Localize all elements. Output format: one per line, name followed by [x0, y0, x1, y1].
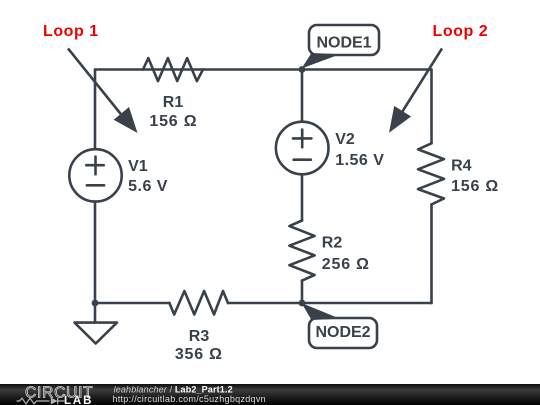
- svg-text:NODE2: NODE2: [315, 324, 370, 341]
- node junction dot NODE2: [299, 300, 306, 307]
- svg-text:356 Ω: 356 Ω: [175, 346, 223, 363]
- voltage source V1: [69, 149, 121, 201]
- loop 2 arrow: [389, 48, 442, 132]
- wire right vertical upper (corner to R4 top): [430, 70, 433, 144]
- svg-text:R2: R2: [322, 235, 343, 252]
- svg-text:256 Ω: 256 Ω: [322, 256, 370, 273]
- callout NODE1: [302, 25, 380, 69]
- callout NODE2: [302, 303, 378, 348]
- svg-text:5.6 V: 5.6 V: [128, 178, 168, 195]
- svg-text:R1: R1: [163, 94, 184, 111]
- resistor R2: [289, 221, 314, 281]
- svg-text:V2: V2: [335, 131, 355, 148]
- resistor R3: [169, 291, 228, 315]
- resistor R1: [143, 58, 203, 81]
- wire middle mid (V2 bottom to R2 top): [301, 174, 304, 220]
- svg-text:LAB: LAB: [64, 395, 93, 405]
- svg-text:R4: R4: [451, 157, 472, 174]
- loop 1 arrow: [68, 48, 138, 133]
- svg-text:1.56 V: 1.56 V: [335, 152, 384, 169]
- wire left vertical upper (corner to V1 top): [94, 70, 97, 150]
- svg-text:http://circuitlab.com/c5uzhgbq: http://circuitlab.com/c5uzhgbqzdqvn: [112, 394, 266, 404]
- wire left vertical lower (V1 bottom to ground node): [94, 202, 97, 323]
- wire middle upper (NODE1 to V2 top): [301, 70, 304, 122]
- svg-text:V1: V1: [128, 158, 148, 175]
- CircuitLab logo zigzag and diode: [17, 398, 65, 404]
- svg-text:156 Ω: 156 Ω: [451, 178, 499, 195]
- footer bar: [0, 384, 540, 405]
- svg-text:NODE1: NODE1: [316, 35, 371, 52]
- svg-text:156 Ω: 156 Ω: [149, 113, 197, 130]
- svg-text:Loop 2: Loop 2: [433, 23, 489, 40]
- wire right vertical lower (R4 bottom to corner): [430, 204, 433, 303]
- node junction dot NODE1: [299, 66, 306, 73]
- wire bottom left (ground node to R3): [95, 302, 169, 305]
- wire bottom right (R3 to right corner): [228, 302, 432, 305]
- svg-text:R3: R3: [189, 328, 210, 345]
- node junction dot ground: [92, 300, 99, 307]
- svg-text:Loop 1: Loop 1: [43, 23, 99, 40]
- resistor R4: [418, 143, 444, 204]
- ground: [75, 323, 118, 344]
- voltage source V2: [276, 122, 329, 175]
- wire middle lower (R2 bottom to NODE2): [301, 281, 304, 303]
- wire top horizontal (node A to right corner): [95, 68, 432, 71]
